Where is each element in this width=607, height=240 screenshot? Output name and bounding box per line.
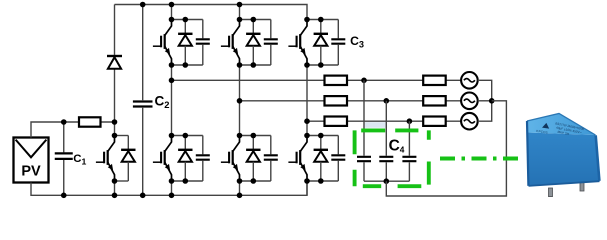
snubber capacitor of top switch Q2 [196,20,210,66]
wire: neutral return [386,101,506,196]
wire: phase C line [307,120,461,122]
wire: phase B to neutral bus [478,100,492,102]
wire: leg 1 from DC+ rail [171,5,173,20]
freewheeling diode of boost switch Q1 [121,136,135,182]
capacitor C2 [133,102,153,107]
wire: boost switch Q1 top row [115,135,129,137]
capacitor C1 [55,153,73,159]
wire: phase A to neutral bus [478,80,492,101]
junction: C1 on DC- rail [61,193,67,199]
boost diode D1 [107,56,122,69]
grid-side inductor phase A [423,76,446,85]
IGBT bottom switch Q6 [221,136,240,182]
junction: phase C leg tap [304,118,310,124]
wire: boost leg into switch cell [114,122,116,136]
wire: C2 branch lower [142,108,144,196]
wire: top switch Q4 top row [307,19,338,21]
junction: top switch Q3 diode top node [251,17,257,23]
snubber capacitor of bottom switch Q5 [196,136,210,182]
junction: leg1 on DC+ rail [169,2,175,8]
junction: top switch Q4 collector node [304,17,310,23]
wire: leg 2 to DC- rail [239,181,241,195]
junction: phase B leg tap [237,98,243,104]
green highlight box around C4 bank [355,130,429,186]
junction: grid neutral [489,98,495,104]
snubber capacitor of bottom switch Q7 [331,136,345,182]
svg-text:C4: C4 [389,137,405,154]
freewheeling diode of bottom switch Q6 [246,136,260,182]
junction: bottom switch Q6 collector node [237,133,243,139]
svg-text:C1: C1 [73,153,86,166]
filter capacitor C4 phase B [379,157,393,161]
wire: phase B line [240,100,462,102]
freewheeling diode of top switch Q4 [314,20,328,66]
junction: bottom switch Q7 emitter node [304,178,310,184]
junction: C2 on DC- rail [140,193,146,199]
wire: leg 1 midpoint [171,65,173,136]
wire: boost diode branch lower [114,69,116,122]
wire: top switch Q4 bottom row [307,64,338,66]
IGBT top switch Q4 [288,20,307,66]
wire: C4 branch B lower [385,162,387,181]
IGBT bottom switch Q5 [153,136,172,182]
svg-text:C2: C2 [155,94,170,111]
AC grid source phase C [461,113,478,130]
junction: C2 on DC+ rail [140,2,146,8]
junction: bottom switch Q6 emitter node [237,178,243,184]
grid-side inductor phase B [423,96,446,105]
IGBT boost switch Q1 [96,136,115,182]
junction: top switch Q3 diode bottom node [251,62,257,68]
freewheeling diode of top switch Q3 [246,20,260,66]
svg-text:C3: C3 [350,34,364,50]
wire: bottom switch Q6 bottom row [240,180,271,182]
filter capacitor C4 phase A [357,157,371,161]
junction: bottom switch Q6 diode top node [251,133,257,139]
freewheeling diode of bottom switch Q7 [314,136,328,182]
inverter-side inductor phase C [325,117,348,126]
junction: phase A leg tap [169,78,175,84]
freewheeling diode of bottom switch Q5 [178,136,192,182]
junction: bottom switch Q7 collector node [304,133,310,139]
wire: boost leg to DC- rail [114,181,116,195]
junction: top switch Q3 emitter node [237,62,243,68]
wire: leg 3 midpoint [306,65,308,136]
EPCOS film capacitor photo [527,114,600,197]
junction: leg2 on DC+ rail [237,2,243,8]
PV panel source [14,138,49,183]
junction: phase B filter tap [384,98,390,104]
svg-text:PV: PV [21,164,41,180]
junction: bottom switch Q7 diode top node [318,133,324,139]
wire: top switch Q3 bottom row [240,64,271,66]
junction: boost switch Q1 collector node [112,133,118,139]
junction: C4 star point [384,178,390,184]
junction: top switch Q4 diode top node [318,17,324,23]
wire: C4 branch C upper [408,121,410,156]
snubber capacitor of top switch Q4 [331,20,345,66]
wire: bottom switch Q6 top row [240,135,271,137]
junction: phase A filter tap [361,78,367,84]
junction: bottom switch Q5 diode top node [183,133,189,139]
wire: PV positive to boost node [31,122,115,138]
IGBT top switch Q3 [221,20,240,66]
wire: C4 branch C lower [408,162,410,181]
wire: top switch Q2 bottom row [172,64,203,66]
junction: leg1 on DC- rail [169,193,175,199]
IGBT top switch Q2 [153,20,172,66]
wire: top switch Q3 top row [240,19,271,21]
freewheeling diode of top switch Q2 [178,20,192,66]
junction: bottom switch Q5 emitter node [169,178,175,184]
wire: boost diode branch upper [114,5,116,55]
junction: top switch Q2 diode top node [183,17,189,23]
junction: bottom switch Q6 diode bottom node [251,178,257,184]
junction: top switch Q3 collector node [237,17,243,23]
junction: boost node [112,119,118,125]
junction: boost switch Q1 emitter node [112,178,118,184]
wire: PV negative / DC- rail [31,181,307,195]
AC grid source phase A [461,72,478,89]
snubber capacitor of bottom switch Q6 [264,136,278,182]
junction: top switch Q2 collector node [169,17,175,23]
wire: bottom switch Q7 top row [307,135,338,137]
wire: phase C to neutral bus [478,101,492,121]
wire: DC+ top rail [115,5,308,20]
wire: C4 star point row [364,180,409,182]
wire: leg 3 to DC- rail [306,181,308,195]
highlight under phase C [365,122,386,128]
inverter-side inductor phase B [325,96,348,105]
wire: phase A line [172,79,462,81]
junction: top switch Q4 emitter node [304,62,310,68]
wire: leg 2 from DC+ rail [239,5,241,20]
wire: leg 1 to DC- rail [171,181,173,195]
IGBT bottom switch Q7 [288,136,307,182]
junction: boost leg on DC- rail [112,193,118,199]
boost inductor L1 [79,117,101,126]
wire: bottom switch Q7 bottom row [307,180,338,182]
junction: bottom switch Q5 collector node [169,133,175,139]
green dash-dot callout line [440,157,521,161]
wire: C4 branch A upper [363,80,365,155]
wire: C4 branch A lower [363,162,365,181]
wire: boost switch Q1 bottom row [115,180,129,182]
junction: top switch Q4 diode bottom node [318,62,324,68]
wire: C1 branch lower [63,160,65,195]
wire: C1 branch upper [63,122,65,152]
inverter-side inductor phase A [325,76,348,85]
junction: bottom switch Q5 diode bottom node [183,178,189,184]
junction: bottom switch Q7 diode bottom node [318,178,324,184]
junction: top switch Q2 emitter node [169,62,175,68]
junction: top switch Q2 diode bottom node [183,62,189,68]
junction: phase C filter tap [407,118,413,124]
wire: top switch Q2 top row [172,19,203,21]
wire: C2 branch upper [142,5,144,101]
snubber capacitor of top switch Q3 [264,20,278,66]
wire: bottom switch Q5 bottom row [172,180,203,182]
filter capacitor C4 phase C [402,157,416,161]
junction: leg2 on DC- rail [237,193,243,199]
junction: C1 top node [61,119,67,125]
wire: bottom switch Q5 top row [172,135,203,137]
wire: C4 branch B upper [385,101,387,156]
AC grid source phase B [461,93,478,110]
wire: leg 2 midpoint [239,65,241,136]
grid-side inductor phase C [423,117,446,126]
